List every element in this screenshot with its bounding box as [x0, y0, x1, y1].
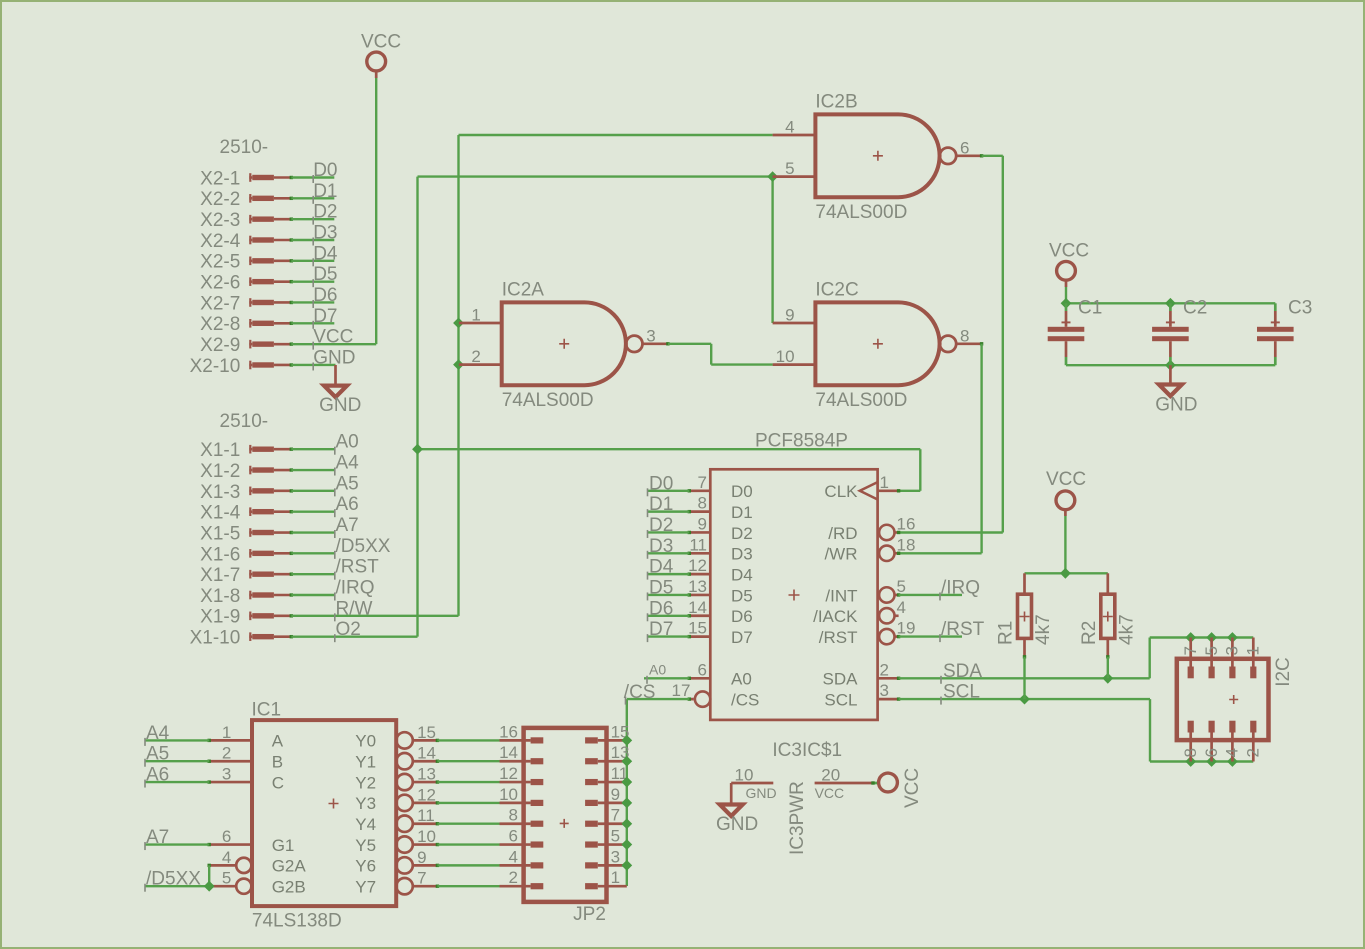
wire net D7 from X2-8	[291, 306, 337, 329]
wire net /D5XX from X1-6	[291, 536, 390, 559]
wire net VCC capacitor top bus	[1066, 287, 1275, 303]
JP2 pin 8 (left)	[500, 806, 544, 825]
JP2 pin 9 (right)	[585, 785, 627, 804]
wire from IC1 Y3 to JP2	[437, 802, 499, 804]
connector pin X1-4	[200, 503, 293, 524]
svg-text:5: 5	[785, 159, 794, 178]
connector pin X2-7	[200, 293, 293, 314]
PCF8584P pin CLK (pin 1) with clock wedge	[824, 473, 900, 501]
svg-text:IC2B: IC2B	[815, 92, 857, 113]
IC1 pin A (pin 1)	[208, 723, 284, 751]
wire net D2 from X2-3	[291, 202, 337, 225]
svg-text:14: 14	[417, 744, 436, 763]
svg-text:R1: R1	[996, 621, 1017, 645]
svg-text:11: 11	[417, 806, 435, 825]
wire net VCC vertical to X2-9	[375, 78, 377, 344]
svg-text:A0: A0	[649, 661, 666, 677]
svg-text:7: 7	[417, 869, 426, 888]
JP2 pin 3 (right)	[585, 847, 627, 866]
wire from IC1 Y1 to JP2	[437, 760, 499, 762]
wire net SCL R1 lower lead	[1023, 657, 1025, 699]
svg-text:VCC: VCC	[902, 768, 923, 808]
svg-text:/D5XX: /D5XX	[146, 869, 201, 890]
connector pin X2-2	[200, 189, 293, 210]
wire net /RST from PCF8584P /RST	[899, 619, 985, 642]
junction VCC bus at C2	[1165, 298, 1176, 309]
svg-text:A4: A4	[146, 723, 170, 744]
svg-text:SCL: SCL	[824, 690, 857, 709]
junction /CS bus at JP2 pin 13	[621, 756, 632, 767]
svg-text:D5: D5	[313, 264, 337, 285]
svg-text:A7: A7	[146, 827, 169, 848]
wire net D5 to PCF8584P	[648, 577, 690, 600]
IC1 pin G2A (pin 4)	[208, 848, 307, 876]
svg-text:GND: GND	[746, 785, 777, 801]
svg-text:17: 17	[672, 681, 691, 700]
svg-text:1: 1	[222, 723, 231, 742]
svg-text:2: 2	[471, 347, 480, 366]
connector pin X1-5	[200, 523, 293, 544]
I2C pin 4 (bottom)	[1231, 721, 1234, 762]
PCF8584P pin /INT (pin 5) with bubble	[825, 577, 906, 605]
svg-text:X2-2: X2-2	[200, 189, 240, 210]
svg-text:A6: A6	[146, 765, 169, 786]
svg-text:4: 4	[1223, 748, 1242, 757]
svg-text:/RST: /RST	[336, 557, 380, 578]
PCF8584P pin /RST (pin 19) with bubble	[819, 619, 916, 647]
svg-text:6: 6	[222, 827, 231, 846]
PCF8584P pin SDA (pin 2)	[823, 660, 901, 688]
wire from IC1 Y0 to JP2	[437, 739, 499, 741]
connector pin X1-7	[200, 565, 293, 586]
wire from IC1 Y6 to JP2	[437, 864, 499, 866]
svg-text:D1: D1	[649, 494, 673, 515]
svg-text:X2-4: X2-4	[200, 231, 241, 252]
svg-text:/INT: /INT	[825, 586, 857, 605]
connector pin X2-5	[200, 252, 293, 273]
svg-text:X2-9: X2-9	[200, 335, 240, 356]
svg-text:GND: GND	[716, 814, 758, 835]
connector X1 (2510-)	[220, 411, 269, 432]
svg-text:4k7: 4k7	[1033, 614, 1054, 645]
svg-text:VCC: VCC	[1049, 241, 1089, 262]
svg-text:3: 3	[1223, 646, 1242, 655]
JP2 pin 7 (right)	[585, 806, 627, 825]
svg-text:D2: D2	[313, 202, 337, 223]
svg-text:4: 4	[897, 598, 906, 617]
svg-text:3: 3	[611, 847, 620, 866]
svg-text:9: 9	[698, 514, 707, 533]
wire net A4 to IC1	[145, 723, 210, 746]
svg-text:VCC: VCC	[1046, 469, 1086, 490]
svg-text:4: 4	[509, 847, 518, 866]
connector pin X1-6	[200, 544, 293, 565]
wire net R/W from X1-9	[291, 598, 458, 621]
IC1 pin Y3 (pin 12) with bubble	[355, 785, 439, 813]
svg-text:12: 12	[417, 785, 436, 804]
svg-text:5: 5	[1202, 646, 1221, 655]
svg-text:A7: A7	[336, 515, 359, 536]
PCF8584P pin /CS (pin 17) with bubble	[672, 681, 760, 709]
junction /CS bus at JP2 pin 9	[621, 797, 632, 808]
PCF8584P pin SCL (pin 3)	[824, 681, 900, 709]
JP2 pin 14 (left)	[499, 743, 543, 762]
wire net /IRQ from X1-8	[291, 578, 374, 601]
svg-text:X1-10: X1-10	[190, 628, 241, 649]
IC1 pin Y0 (pin 15) with bubble	[355, 723, 439, 751]
JP2 pin 12 (left)	[499, 764, 543, 783]
junction net /D5XX at G2B	[204, 881, 215, 892]
svg-text:C3: C3	[1288, 298, 1312, 319]
svg-text:/CS: /CS	[731, 690, 759, 709]
pin VCC (pin 20)	[815, 765, 879, 801]
I2C pin 2 (bottom)	[1252, 721, 1255, 762]
junction net SCL at I2C pin x=1211.6	[1206, 756, 1217, 767]
svg-text:7: 7	[698, 473, 707, 492]
wire net A5 to IC1	[145, 744, 210, 767]
svg-text:15: 15	[417, 723, 436, 742]
IC1 pin Y1 (pin 14) with bubble	[355, 744, 439, 772]
junction net SDA at I2C pin x=1211.6	[1206, 632, 1217, 643]
svg-text:X2-10: X2-10	[190, 356, 241, 377]
connector pin X2-10	[190, 356, 293, 377]
svg-text:4: 4	[785, 118, 794, 137]
connector pin X2-4	[200, 231, 293, 252]
svg-text:20: 20	[821, 765, 840, 784]
svg-text:/RD: /RD	[828, 524, 857, 543]
svg-text:6: 6	[509, 827, 518, 846]
svg-text:13: 13	[688, 577, 707, 596]
junction net O2 at X1-1 row	[412, 444, 423, 455]
IC1 pin Y2 (pin 13) with bubble	[355, 765, 439, 793]
connector pin X1-3	[200, 482, 293, 503]
wire net /D5XX to IC1 G2B and G2A	[145, 865, 210, 891]
wire net D1 to PCF8584P	[648, 494, 690, 517]
svg-text:G2B: G2B	[272, 878, 306, 897]
junction net SCL at I2C pin x=1232.4	[1227, 756, 1238, 767]
svg-text:1: 1	[880, 473, 889, 492]
wire net D5 from X2-6	[291, 264, 337, 287]
svg-text:/IRQ: /IRQ	[941, 577, 980, 598]
VCC supply symbol (IC3 pin 20, rotated)	[879, 768, 923, 808]
connector pin X2-6	[200, 273, 293, 294]
svg-text:/CS: /CS	[624, 682, 656, 703]
junction VCC tee	[1060, 568, 1071, 579]
VCC supply symbol (top)	[361, 32, 401, 79]
wire net D3 from X2-4	[291, 222, 337, 245]
PCF8584P pin D1 (pin 8)	[688, 494, 753, 522]
svg-text:Y7: Y7	[355, 878, 376, 897]
junction VCC bus at C1	[1061, 298, 1072, 309]
wire net D4 to PCF8584P	[648, 557, 690, 580]
svg-text:X1-7: X1-7	[200, 565, 240, 586]
wire net A0 from X1-1	[291, 432, 358, 455]
svg-text:B: B	[272, 753, 283, 772]
wire net GND from X2-10	[291, 347, 355, 370]
I2C pin 3 (top)	[1231, 638, 1234, 679]
svg-text:8: 8	[509, 806, 518, 825]
junction on R/W at IC2A pin 2	[453, 359, 464, 370]
ground symbol GND (below X2-10)	[319, 365, 361, 416]
svg-text:2: 2	[880, 660, 889, 679]
wire net A6 to IC1	[145, 765, 210, 788]
svg-text:X2-7: X2-7	[200, 293, 240, 314]
I2C pin 1 (top)	[1252, 638, 1255, 679]
connector pin X2-1	[200, 168, 293, 189]
JP2 pin 1 (right)	[585, 868, 627, 887]
svg-text:8: 8	[1181, 748, 1200, 757]
wire from IC1 Y4 to JP2	[437, 823, 499, 825]
JP2 pin 15 (right)	[585, 722, 629, 741]
IC U IC3 PCF8584P main box	[710, 469, 877, 720]
svg-text:GND: GND	[1155, 395, 1197, 416]
junction /CS bus at JP2 pin 5	[621, 839, 632, 850]
ground symbol GND (IC3 pin 10)	[716, 783, 758, 835]
wire net VCC to R1/R2 tee	[1025, 516, 1108, 573]
junction on R/W at IC2A pin 1	[453, 318, 464, 329]
I2C pin 5 (top)	[1210, 638, 1213, 679]
svg-text:D7: D7	[649, 619, 673, 640]
svg-text:15: 15	[688, 619, 707, 638]
svg-text:X1-6: X1-6	[200, 544, 240, 565]
svg-text:SDA: SDA	[823, 670, 859, 689]
svg-text:74ALS00D: 74ALS00D	[815, 202, 907, 223]
svg-text:D4: D4	[731, 565, 753, 584]
PCF8584P pin D7 (pin 15)	[688, 619, 753, 647]
svg-text:VCC: VCC	[361, 32, 401, 53]
svg-text:Y1: Y1	[355, 753, 376, 772]
junction GND bus at C2	[1165, 360, 1176, 371]
svg-text:4: 4	[222, 848, 231, 867]
svg-text:D0: D0	[313, 160, 337, 181]
PCF8584P pin /WR (pin 18) with bubble	[824, 535, 915, 563]
svg-text:Y2: Y2	[355, 773, 376, 792]
svg-text:9: 9	[417, 848, 426, 867]
junction /CS bus at JP2 pin 3	[621, 860, 632, 871]
svg-text:D4: D4	[649, 557, 674, 578]
wire net A4 from X1-2	[291, 453, 359, 476]
wire net /RST from X1-7	[291, 557, 379, 580]
svg-text:JP2: JP2	[573, 904, 606, 925]
wire net A7 from X1-5	[291, 515, 358, 538]
svg-text:D6: D6	[649, 598, 673, 619]
svg-text:G2A: G2A	[272, 857, 307, 876]
svg-text:CLK: CLK	[824, 482, 858, 501]
IC1 pin Y5 (pin 10) with bubble	[355, 827, 439, 855]
svg-text:G1: G1	[272, 836, 295, 855]
svg-text:1: 1	[1244, 646, 1263, 655]
svg-text:3: 3	[222, 765, 231, 784]
wire net O2 branch to PCF8584P CLK	[418, 449, 921, 491]
svg-text:IC2C: IC2C	[815, 280, 858, 301]
svg-text:X2-1: X2-1	[200, 168, 240, 189]
svg-text:A0: A0	[731, 670, 752, 689]
svg-text:A5: A5	[146, 744, 169, 765]
nand gate IC2A 74ALS00D	[459, 280, 670, 412]
svg-text:A6: A6	[336, 494, 359, 515]
junction /CS bus at JP2 pin 11	[621, 777, 632, 788]
PCF8584P pin D0 (pin 7)	[688, 473, 753, 501]
connector pin X2-3	[200, 210, 293, 231]
JP2 pin 11 (right)	[585, 764, 628, 783]
junction /CS bus at JP2 pin 7	[621, 818, 632, 829]
VCC supply symbol (pullups)	[1046, 469, 1086, 516]
svg-text:D3: D3	[649, 536, 673, 557]
svg-text:18: 18	[897, 535, 916, 554]
svg-text:X1-8: X1-8	[200, 586, 240, 607]
wire net D0 to PCF8584P	[648, 473, 690, 496]
junction net SDA at I2C pin x=1190.7	[1185, 632, 1196, 643]
svg-text:13: 13	[417, 765, 436, 784]
connector pin X2-9	[200, 335, 293, 356]
PCF8584P pin /RD (pin 16) with bubble	[828, 514, 915, 542]
svg-text:10: 10	[735, 765, 754, 784]
svg-text:R2: R2	[1079, 621, 1100, 645]
svg-text:19: 19	[897, 619, 916, 638]
svg-text:14: 14	[499, 743, 518, 762]
IC1 pin Y7 (pin 7) with bubble	[355, 869, 439, 897]
svg-text:I2C: I2C	[1273, 657, 1294, 687]
wire net SDA	[899, 638, 1254, 684]
svg-text:D6: D6	[313, 285, 337, 306]
IC1 pin Y4 (pin 11) with bubble	[355, 806, 439, 834]
resistor R1 4k7	[996, 573, 1055, 658]
svg-text:X1-5: X1-5	[200, 523, 240, 544]
svg-text:D3: D3	[731, 545, 753, 564]
svg-text:8: 8	[698, 494, 707, 513]
IC1 pin C (pin 3)	[208, 765, 284, 793]
PCF8584P pin D3 (pin 11)	[688, 535, 753, 563]
wire from IC1 Y5 to JP2	[437, 843, 499, 845]
svg-text:Y0: Y0	[355, 732, 376, 751]
pin GND (pin 10)	[731, 765, 776, 801]
svg-text:X1-2: X1-2	[200, 461, 240, 482]
svg-text:SCL: SCL	[943, 682, 980, 703]
svg-text:6: 6	[698, 660, 707, 679]
svg-text:/IACK: /IACK	[813, 607, 858, 626]
svg-text:74LS138D: 74LS138D	[252, 911, 342, 932]
wire net GND capacitor bottom bus	[1066, 364, 1275, 366]
IC1 pin G2B (pin 5)	[208, 869, 306, 897]
I2C pin 8 (bottom)	[1189, 721, 1192, 762]
svg-text:2: 2	[509, 868, 518, 887]
wire from IC1 Y7 to JP2	[437, 885, 499, 887]
wire net D6 to PCF8584P	[648, 598, 690, 621]
svg-text:9: 9	[611, 785, 620, 804]
ground symbol GND (capacitor bank)	[1155, 365, 1197, 416]
svg-text:C1: C1	[1078, 298, 1102, 319]
JP2 pin 6 (left)	[500, 827, 544, 846]
I2C pin 7 (top)	[1189, 638, 1192, 679]
capacitor C1	[1048, 298, 1103, 366]
svg-text:10: 10	[499, 785, 518, 804]
svg-text:C: C	[272, 773, 284, 792]
junction net SCL at I2C pin x=1190.7	[1185, 756, 1196, 767]
junction net SDA at R2	[1102, 673, 1113, 684]
svg-text:2510-: 2510-	[220, 137, 269, 158]
IC3 power gate IC3PWR	[731, 740, 879, 855]
wire net SDA R2 lower lead	[1107, 657, 1109, 679]
svg-text:D0: D0	[649, 473, 673, 494]
svg-text:5: 5	[897, 577, 906, 596]
svg-text:10: 10	[417, 827, 436, 846]
svg-text:1: 1	[611, 868, 620, 887]
svg-text:IC3PWR: IC3PWR	[787, 781, 808, 855]
nand gate IC2B 74ALS00D	[773, 92, 984, 224]
capacitor C2	[1152, 298, 1207, 366]
wire from IC1 Y2 to JP2	[437, 781, 499, 783]
svg-text:74ALS00D: 74ALS00D	[815, 390, 907, 411]
IC1 pin B (pin 2)	[208, 744, 284, 772]
connector pin X2-8	[200, 314, 293, 335]
PCF8584P pin D2 (pin 9)	[688, 514, 753, 542]
svg-text:8: 8	[960, 326, 969, 345]
svg-text:X2-5: X2-5	[200, 252, 240, 273]
svg-text:7: 7	[611, 806, 620, 825]
connector pin X1-9	[200, 607, 293, 628]
svg-text:Y6: Y6	[355, 857, 376, 876]
svg-text:X2-8: X2-8	[200, 314, 240, 335]
wire net from IC2A output pin 3 to IC2C pin 10	[668, 344, 773, 365]
VCC supply symbol (capacitor bank)	[1049, 241, 1089, 288]
IC1 pin Y6 (pin 9) with bubble	[355, 848, 439, 876]
JP2 pin 13 (right)	[585, 743, 629, 762]
svg-text:11: 11	[689, 535, 707, 554]
connector pin X1-1	[200, 440, 293, 461]
svg-text:O2: O2	[336, 619, 361, 640]
wire net D1 from X2-2	[291, 181, 337, 204]
connector pin X1-8	[200, 586, 293, 607]
svg-text:4k7: 4k7	[1116, 614, 1137, 645]
connector I2C	[1177, 638, 1294, 762]
junction /CS bus at JP2 pin 15	[621, 735, 632, 746]
svg-text:SDA: SDA	[943, 661, 982, 682]
svg-text:12: 12	[688, 556, 707, 575]
svg-text:X1-9: X1-9	[200, 607, 240, 628]
connector pin X1-2	[200, 461, 293, 482]
JP2 pin 5 (right)	[585, 827, 627, 846]
svg-text:D4: D4	[313, 243, 338, 264]
svg-text:/D5XX: /D5XX	[336, 536, 391, 557]
svg-text:D2: D2	[649, 515, 673, 536]
svg-text:A4: A4	[336, 453, 360, 474]
svg-text:5: 5	[222, 869, 231, 888]
svg-text:/RST: /RST	[941, 619, 985, 640]
svg-text:5: 5	[611, 827, 620, 846]
PCF8584P pin A0 (pin 6)	[688, 660, 752, 688]
PCF8584P pin D5 (pin 13)	[688, 577, 753, 605]
wire net D2 to PCF8584P	[648, 515, 690, 538]
svg-text:Y3: Y3	[355, 794, 376, 813]
svg-text:10: 10	[776, 347, 795, 366]
svg-text:2510-: 2510-	[220, 411, 269, 432]
svg-text:D2: D2	[731, 524, 753, 543]
svg-text:VCC: VCC	[313, 327, 353, 348]
wire net VCC from X2-9	[291, 327, 376, 350]
svg-text:R/W: R/W	[336, 598, 373, 619]
svg-text:D5: D5	[731, 586, 753, 605]
svg-text:Y4: Y4	[355, 815, 376, 834]
wire net D0 from X2-1	[291, 160, 337, 183]
connector X2 (2510-)	[220, 137, 269, 158]
svg-text:Y5: Y5	[355, 836, 376, 855]
svg-text:1: 1	[471, 306, 480, 325]
svg-text:/WR: /WR	[824, 545, 857, 564]
svg-text:X1-4: X1-4	[200, 503, 241, 524]
wire net from IC2C output pin 8 to PCF8584P /WR	[899, 344, 982, 554]
svg-text:3: 3	[646, 326, 655, 345]
PCF8584P pin /IACK (pin 4) with bubble	[813, 598, 906, 626]
